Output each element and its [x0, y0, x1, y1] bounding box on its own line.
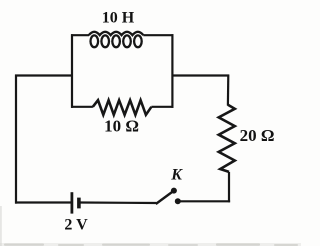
- resistor branch left stub: [71, 106, 93, 108]
- switch upper contact dot: [171, 188, 177, 194]
- scan smudge bottom edge: [0, 243, 301, 246]
- wire bottom-left horizontal: [15, 201, 71, 203]
- svg-text:K: K: [170, 167, 183, 184]
- resistor R1 10 ohm zigzag: [93, 100, 152, 115]
- parallel box right vertical: [171, 34, 173, 108]
- svg-text:10 Ω: 10 Ω: [104, 117, 139, 136]
- inductor L1 coil 10 H: [89, 32, 144, 47]
- battery long plate: [71, 192, 74, 213]
- resistor R2 20 ohm zigzag: [219, 105, 235, 172]
- resistor branch right stub: [151, 106, 173, 108]
- inductor branch right stub: [143, 34, 173, 36]
- wire top-left horizontal: [15, 74, 73, 76]
- svg-text:2 V: 2 V: [64, 217, 88, 234]
- wire right vertical lower: [228, 172, 230, 202]
- svg-text:10 H: 10 H: [102, 10, 135, 27]
- switch K arm: [156, 192, 173, 204]
- wire right vertical upper: [227, 75, 230, 106]
- switch lower contact dot: [175, 198, 181, 204]
- inductor branch left stub: [71, 34, 89, 36]
- parallel box left vertical: [71, 34, 73, 108]
- scan smudge bottom-left: [0, 206, 2, 246]
- wire left vertical: [15, 75, 17, 204]
- svg-text:20 Ω: 20 Ω: [240, 126, 275, 145]
- wire bottom-middle horizontal: [80, 201, 156, 204]
- wire top-right horizontal: [172, 74, 230, 76]
- battery short plate: [77, 198, 81, 209]
- wire bottom-right horizontal: [178, 200, 230, 202]
